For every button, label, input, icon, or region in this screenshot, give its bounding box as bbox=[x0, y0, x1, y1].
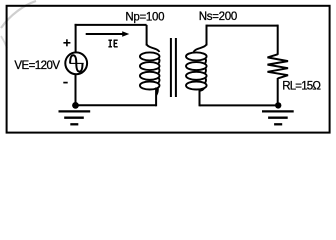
resistor RL bbox=[268, 54, 289, 78]
polarity minus mark bbox=[63, 82, 67, 84]
svg-text:Np=100: Np=100 bbox=[125, 12, 164, 24]
svg-text:VE=120V: VE=120V bbox=[14, 60, 60, 72]
sine wave bbox=[70, 55, 82, 71]
wire: primary entry vertical bbox=[146, 25, 148, 46]
wire: resistor top vertical bbox=[277, 25, 279, 55]
sine axis line bbox=[70, 62, 84, 64]
wire: source top vertical bbox=[75, 24, 77, 53]
ground symbol left bbox=[59, 111, 91, 124]
wire: top-left horizontal bbox=[75, 24, 147, 26]
wire: source bottom vertical bbox=[75, 74, 77, 106]
current direction arrow bbox=[86, 33, 124, 35]
wire: bottom-right horizontal bbox=[200, 104, 279, 106]
polarity plus mark bbox=[63, 42, 70, 44]
AC voltage source VE bbox=[65, 52, 87, 74]
transformer T1 core bbox=[170, 38, 172, 97]
junction node right (load/ground) bbox=[275, 102, 281, 108]
current label IE bbox=[108, 40, 117, 47]
wire: secondary entry vertical bbox=[206, 25, 208, 46]
svg-text:Ns=200: Ns=200 bbox=[199, 11, 237, 23]
wire: primary exit vertical bbox=[155, 88, 157, 107]
transformer T1 primary winding Np bbox=[140, 44, 160, 95]
junction node left (source/ground) bbox=[72, 102, 79, 109]
wire: secondary exit vertical bbox=[199, 89, 201, 107]
transformer T1 secondary winding Ns bbox=[186, 44, 207, 91]
ground symbol right bbox=[262, 111, 294, 124]
wire: bottom-left horizontal bbox=[76, 104, 157, 106]
wire: resistor bottom vertical bbox=[277, 78, 279, 105]
wire: secondary top horizontal bbox=[207, 25, 278, 27]
svg-text:RL=15Ω: RL=15Ω bbox=[282, 81, 321, 93]
